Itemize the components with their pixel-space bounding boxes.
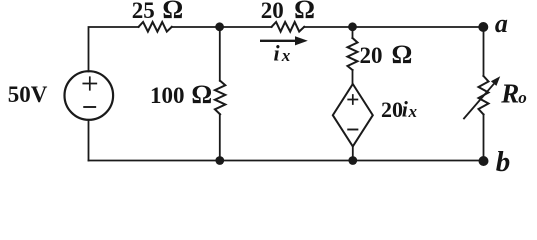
wire right branch terminal a to Ro (483, 27, 485, 76)
svg-text:20: 20 (360, 43, 383, 68)
svg-text:i: i (274, 40, 281, 65)
wire 100ohm branch bottom lead (219, 114, 221, 160)
svg-text:b: b (496, 146, 511, 178)
svg-text:50V: 50V (8, 82, 48, 107)
wire Ro to terminal b (483, 114, 485, 160)
svg-text:o: o (518, 88, 527, 107)
svg-text:Ω: Ω (392, 40, 413, 69)
resistor 20ohm horizontal zigzag (272, 22, 305, 32)
svg-text:x: x (281, 46, 291, 65)
minus sign inside source (84, 106, 95, 108)
node junction dot after 25ohm (215, 22, 224, 31)
node junction dot after 20ohm (348, 22, 357, 31)
current arrow ix (260, 40, 296, 42)
svg-text:Ω: Ω (162, 0, 183, 24)
wire between 20ohm vertical and dependent source (352, 70, 354, 84)
minus sign inside diamond (348, 129, 357, 131)
wire top between 25ohm and 20ohm (through node) (172, 26, 272, 28)
node junction dot bottom of 100ohm (215, 156, 224, 165)
wire below dependent source (352, 146, 354, 160)
plus sign inside source (83, 77, 96, 90)
resistor 25ohm zigzag (139, 22, 172, 32)
wire bottom rail (89, 160, 484, 162)
svg-text:Ω: Ω (294, 0, 315, 24)
voltage source 50V circle (65, 71, 114, 120)
svg-text:Ω: Ω (191, 80, 212, 109)
svg-text:20: 20 (381, 97, 403, 122)
svg-text:x: x (408, 102, 418, 121)
resistor Ro zigzag (479, 76, 489, 114)
wire 20ohm vertical branch top lead (352, 27, 354, 38)
plus sign inside diamond (348, 95, 357, 104)
wire left-bottom from source to bottom rail (88, 120, 90, 161)
svg-text:20: 20 (261, 0, 284, 23)
wire top between 20ohm and terminal a (304, 26, 483, 28)
terminal b dot (479, 156, 489, 166)
resistor 100ohm vertical zigzag (215, 81, 225, 115)
dependent source diamond 20ix (333, 84, 373, 146)
wire 100ohm branch top lead (219, 27, 221, 81)
arrow through Ro (variable resistor) (463, 83, 495, 120)
svg-text:R: R (500, 78, 519, 108)
node junction dot bottom of dependent source (348, 156, 357, 165)
svg-text:100: 100 (150, 83, 185, 108)
svg-text:a: a (495, 9, 508, 38)
resistor 20ohm vertical zigzag (348, 38, 358, 70)
svg-text:25: 25 (132, 0, 155, 23)
terminal a dot (478, 22, 488, 32)
wire top-left from source to 25ohm resistor (89, 27, 139, 72)
